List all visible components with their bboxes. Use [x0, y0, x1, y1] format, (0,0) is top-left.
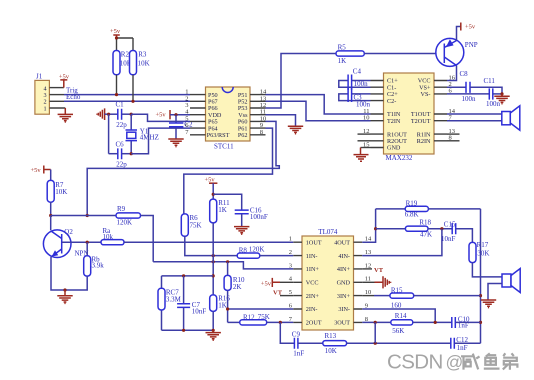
ground at Q2 emitter — [57, 290, 72, 303]
power +5v at VDD — [156, 110, 171, 119]
capacitor C16 — [235, 206, 268, 226]
transistor Q1 PNP — [436, 38, 478, 66]
capacitor C12 — [451, 336, 469, 352]
wire 4OUT to feedback net — [362, 209, 375, 242]
junction C7 top — [182, 274, 185, 277]
wire crystal top node to P65 pin5 — [131, 114, 190, 121]
junction C7 bottom — [182, 329, 185, 332]
wire R19 right to vertical net — [428, 208, 480, 210]
svg-text:100n: 100n — [462, 95, 477, 103]
svg-text:3IN+: 3IN+ — [337, 293, 351, 300]
svg-text:GND: GND — [337, 280, 351, 287]
wire R14 to C10 — [413, 321, 452, 323]
junction R11 net RC7 rail — [212, 274, 215, 277]
wire R12 to 2OUT pin7 — [267, 321, 294, 323]
capacitor C2 — [169, 115, 193, 139]
resistor R7 — [47, 180, 67, 202]
ground at C16 — [234, 227, 249, 235]
svg-text:C8: C8 — [460, 70, 469, 78]
junction crystal bottom node — [130, 152, 133, 155]
capacitor C10 — [452, 316, 470, 330]
svg-text:3IN-: 3IN- — [338, 306, 350, 313]
svg-text:10k: 10k — [103, 233, 114, 241]
wire R2IN open stub — [447, 140, 460, 142]
svg-text:4MHZ: 4MHZ — [140, 133, 159, 141]
transistor Q2 NPN — [43, 228, 88, 258]
junction R3 Echo — [131, 100, 134, 103]
resistor R8 — [237, 245, 264, 258]
svg-text:1: 1 — [289, 236, 292, 243]
wire VS- to C11 — [447, 93, 489, 95]
wire C6 to crystal bottom node — [122, 153, 132, 155]
junction R11 net on 1IN+ row — [212, 260, 215, 263]
svg-text:Echo: Echo — [66, 93, 81, 101]
TL074 left pin numbers — [289, 236, 293, 323]
wire P60 down to collector net line A — [87, 121, 279, 215]
wire C10 to vertical net — [455, 321, 480, 323]
wire C1 to crystal node — [122, 113, 132, 115]
svg-text:4IN-: 4IN- — [338, 253, 350, 260]
svg-text:1K: 1K — [218, 302, 227, 310]
resistor R14 — [391, 312, 413, 335]
wire T1OUT to speaker — [447, 113, 502, 115]
wire R8 to pin2 — [260, 255, 294, 257]
ground at speaker2 — [481, 300, 496, 308]
wire speaker2 to ground — [488, 284, 502, 300]
wire collector — [50, 216, 52, 231]
svg-text:R12: R12 — [243, 313, 255, 321]
wire VCC to PNP collector — [447, 66, 457, 81]
svg-text:C2-: C2- — [387, 98, 396, 105]
capacitor C11 — [484, 77, 501, 108]
resistor R13 — [323, 332, 347, 355]
MAX232 left pin numbers — [363, 108, 370, 149]
capacitor C9 — [292, 331, 305, 358]
wire R5 to PNP base — [364, 53, 444, 55]
wire Trig net — [64, 94, 190, 96]
junction 3OUT C12 branch — [374, 321, 377, 324]
wire R9 right down to 1IN+ row — [141, 216, 154, 262]
svg-text:R2IN: R2IN — [417, 138, 431, 145]
svg-text:2OUT: 2OUT — [306, 320, 322, 327]
svg-text:1K: 1K — [218, 206, 227, 214]
wire R19 left — [376, 208, 406, 210]
svg-text:R13: R13 — [325, 332, 337, 340]
svg-text:120K: 120K — [249, 245, 265, 253]
junction C12 row 3OUT net — [374, 342, 377, 345]
wire RC7 C7 top rail — [162, 275, 214, 277]
J1 pin 1 stub — [49, 107, 65, 109]
wire collector to R9 — [51, 215, 116, 217]
power +5v above R2 R3 — [110, 28, 121, 38]
junction left rail top — [107, 113, 110, 116]
wire PNP emitter to +5v — [457, 27, 461, 41]
svg-text:R2: R2 — [121, 50, 130, 58]
svg-text:Q2: Q2 — [64, 228, 73, 236]
MAX232 right pin numbers — [449, 74, 456, 141]
wire R12 left — [228, 321, 240, 323]
svg-text:R9: R9 — [117, 205, 126, 213]
svg-text:1IN-: 1IN- — [306, 253, 318, 260]
svg-text:8: 8 — [260, 129, 263, 136]
wire branch to C16 — [213, 194, 242, 210]
wire VDD row — [170, 114, 190, 116]
wire 3IN- pin9 — [362, 309, 435, 322]
junction R11 bottom on 1IN- row — [212, 254, 215, 257]
svg-text:1K: 1K — [338, 57, 347, 65]
wire Vss to ground — [266, 115, 296, 126]
capacitor C1 — [116, 101, 128, 130]
ground sideways at TL074 GND — [362, 276, 390, 288]
svg-text:2IN+: 2IN+ — [306, 293, 320, 300]
TL074 left pin stubs — [293, 242, 302, 322]
svg-text:56K: 56K — [392, 327, 404, 335]
svg-text:R8: R8 — [239, 246, 248, 254]
wire R10 top — [227, 262, 229, 276]
svg-text:3.3M: 3.3M — [166, 295, 182, 303]
svg-text:1OUT: 1OUT — [306, 239, 322, 246]
wire R10 bottom to 2IN- and R12 — [228, 290, 294, 322]
resistor R5 — [336, 43, 364, 64]
svg-text:10nF: 10nF — [192, 308, 207, 316]
svg-text:MAX232: MAX232 — [386, 154, 413, 162]
wire emitter to ground rail — [51, 257, 87, 290]
wire 3OUT branch down — [374, 322, 376, 343]
svg-text:C4: C4 — [353, 67, 362, 75]
svg-text:R3: R3 — [138, 50, 147, 58]
STC11 left pin numbers — [185, 89, 189, 136]
junction 4IN- on R18 C15 wire — [440, 227, 443, 230]
wire Ra to 1OUT row — [124, 241, 293, 243]
capacitor C6 — [116, 140, 128, 168]
ground below C2 — [168, 139, 183, 147]
svg-text:C15: C15 — [444, 221, 456, 229]
svg-text:+5v: +5v — [205, 176, 216, 183]
wire 3IN+ to R15 — [362, 295, 374, 297]
junction R2 Trig — [115, 93, 118, 96]
power +5v at J1 pin 4 — [59, 74, 70, 88]
svg-text:VCC: VCC — [306, 280, 319, 287]
wire R2 R3 top bar — [117, 38, 134, 51]
svg-text:1: 1 — [44, 105, 47, 112]
wire R1IN open stub — [447, 133, 460, 135]
resistor R11 — [210, 199, 230, 223]
wire crystal bottom node to P64 pin6 — [131, 128, 190, 154]
wire Q2 base row — [62, 241, 101, 243]
svg-text:4OUT: 4OUT — [334, 239, 350, 246]
svg-text:+5v: +5v — [31, 167, 42, 174]
wire R11 bottom vertical net — [212, 223, 214, 295]
wire ground to C1 — [105, 113, 118, 115]
wire +5v to R7 — [50, 170, 52, 181]
wire RC7 bottom rail — [162, 329, 214, 331]
svg-text:C6: C6 — [116, 140, 125, 148]
wire 3OUT row — [362, 321, 391, 323]
svg-text:22p: 22p — [116, 121, 127, 129]
op-amp U1 TL074 — [302, 228, 354, 330]
junction 4OUT R18 — [374, 227, 377, 230]
node VT at 2IN+ — [273, 290, 293, 297]
svg-text:22p: 22p — [116, 161, 127, 169]
resistor R12 — [240, 313, 270, 325]
wire R17 bottom to speaker — [472, 263, 502, 277]
power +5v at R11 — [205, 176, 218, 183]
wire R15 to vertical net — [414, 295, 481, 297]
op-amp U2 STC11 — [206, 87, 251, 151]
wire Rb top — [86, 242, 88, 256]
svg-text:+5v: +5v — [465, 24, 476, 31]
svg-text:100n: 100n — [486, 100, 501, 108]
resistor RC7 — [158, 276, 182, 330]
resistor R6 — [181, 214, 201, 236]
wire R3 bottom to Echo — [132, 75, 134, 102]
svg-text:T2OUT: T2OUT — [411, 118, 431, 125]
svg-text:1nF: 1nF — [457, 344, 468, 352]
ground at MAX232 GND pin — [354, 148, 371, 162]
junction 3IN- R14 C10 — [434, 321, 437, 324]
resistor R17 — [469, 241, 489, 262]
junction crystal top node — [130, 113, 133, 116]
resistor R2 — [113, 50, 132, 74]
resistor Rb — [84, 255, 105, 276]
resistor R19 — [405, 200, 429, 219]
svg-text:10nF: 10nF — [441, 235, 456, 243]
svg-text:R14: R14 — [395, 312, 407, 320]
svg-text:STC11: STC11 — [214, 143, 234, 151]
wire R6 bottom to 1IN- row — [185, 236, 237, 255]
resistor R3 — [130, 50, 150, 74]
svg-text:10K: 10K — [325, 347, 337, 355]
svg-text:10K: 10K — [55, 188, 67, 196]
wire P53 up to R5 — [266, 54, 337, 109]
speaker LS1 — [502, 106, 520, 130]
svg-text:3OUT: 3OUT — [334, 320, 350, 327]
svg-text:VT: VT — [374, 267, 384, 274]
resistor Ra — [101, 227, 124, 245]
wire R13 to C12 row — [347, 342, 451, 344]
wire R2OUT open stub — [358, 140, 371, 142]
svg-text:2K: 2K — [233, 283, 242, 291]
wire left rail to C6 — [109, 153, 118, 155]
svg-text:TL074: TL074 — [318, 228, 338, 236]
svg-text:R18: R18 — [419, 219, 431, 227]
svg-text:C1: C1 — [116, 101, 125, 109]
svg-text:47K: 47K — [420, 231, 432, 239]
wire C11 to ground node — [493, 93, 502, 95]
junction net C10 — [479, 321, 482, 324]
watermark CSDN — [387, 350, 463, 373]
svg-text:3: 3 — [289, 262, 292, 269]
svg-text:P62: P62 — [238, 132, 248, 139]
svg-text:2IN-: 2IN- — [306, 306, 318, 313]
svg-text:C11: C11 — [484, 77, 496, 85]
wire right vertical net R19 to C12 — [480, 209, 482, 343]
MAX232 right pin stubs — [434, 81, 447, 141]
junction R10 2IN- — [226, 307, 229, 310]
svg-text:J1: J1 — [36, 72, 43, 80]
wire C12 to vertical net — [454, 342, 480, 344]
junction at +5v R2 — [115, 36, 118, 39]
svg-text:PNP: PNP — [465, 41, 478, 49]
wire R18 left — [376, 228, 406, 230]
node VT at 4IN+ — [362, 267, 383, 274]
svg-text:120K: 120K — [117, 219, 133, 227]
svg-text:R17: R17 — [477, 241, 489, 249]
wire T2OUT to speaker — [447, 120, 502, 122]
crystal Y1 — [126, 114, 159, 154]
svg-text:75K: 75K — [190, 222, 202, 230]
svg-text:P63/RST: P63/RST — [207, 132, 230, 139]
ground sideways at C1 — [97, 108, 105, 120]
junction C16 branch — [212, 193, 215, 196]
capacitor C3 — [339, 88, 371, 108]
svg-text:10K: 10K — [138, 59, 150, 67]
wire R7 bottom to collector node — [50, 202, 52, 215]
power +5v at R7 — [31, 166, 51, 174]
TL074 right pin numbers — [365, 236, 372, 323]
J1 pin 4 stub — [49, 87, 63, 89]
wire 1IN+ row — [153, 262, 293, 269]
svg-text:30K: 30K — [477, 249, 489, 257]
junction R7 collector R9 — [49, 214, 52, 217]
junction 2OUT feedback — [279, 321, 282, 324]
svg-text:@: @ — [446, 352, 464, 372]
resistor R9 — [116, 205, 141, 226]
wire C15 to R17 — [456, 229, 473, 243]
svg-text:1nF: 1nF — [293, 349, 304, 357]
wire C8 to ground node — [470, 87, 502, 94]
junction VDD C2 — [174, 113, 177, 116]
resistor R15 — [390, 286, 414, 309]
ground at C11 — [494, 94, 509, 104]
STC11 left pin stubs 1-7 — [190, 95, 206, 135]
ground at Vss — [288, 126, 303, 134]
wire left rail down to C6 — [108, 114, 110, 154]
svg-text:R5: R5 — [338, 43, 347, 51]
svg-text:VS-: VS- — [421, 91, 431, 98]
ground at R16 rail — [206, 330, 221, 340]
watermark chinese glyphs — [461, 353, 517, 370]
wire C9 to R13 — [298, 342, 323, 344]
svg-text:4IN+: 4IN+ — [337, 266, 351, 273]
wire 2OUT down to C9 — [280, 322, 294, 343]
capacitor C7 — [177, 276, 206, 330]
STC11 right pin stubs 14-8 — [250, 95, 266, 135]
svg-text:R19: R19 — [406, 200, 418, 208]
junction emitter rail — [63, 288, 66, 291]
svg-text:+5v: +5v — [156, 112, 167, 119]
capacitor C4 — [339, 67, 371, 90]
svg-text:C9: C9 — [292, 331, 301, 339]
wire R1OUT open stub — [358, 133, 371, 135]
svg-text:GND: GND — [387, 145, 401, 152]
junction net R15 — [479, 294, 482, 297]
ground at J1 pin 1 — [58, 108, 73, 122]
op-amp U3 MAX232 — [384, 73, 435, 162]
svg-text:100n: 100n — [356, 100, 371, 108]
svg-text:CSDN: CSDN — [387, 350, 443, 373]
svg-text:3.9k: 3.9k — [92, 262, 105, 270]
svg-text:1IN+: 1IN+ — [306, 266, 320, 273]
power +5v at PNP — [461, 23, 476, 31]
junction C8 C11 ground — [500, 92, 503, 95]
junction base Rb — [86, 241, 89, 244]
speaker LS2 — [502, 269, 520, 293]
wire P61 down to R6 top — [184, 128, 273, 214]
svg-text:75K: 75K — [258, 313, 270, 321]
wire +5v to R11 — [212, 183, 214, 199]
wire R2 bottom to Trig — [116, 75, 118, 95]
MAX232 left pin stubs — [371, 81, 384, 148]
svg-text:2: 2 — [289, 249, 292, 256]
capacitor C8 — [460, 70, 477, 103]
svg-text:+5v: +5v — [110, 28, 121, 35]
resistor R18 — [405, 219, 432, 239]
wire P51 to T1IN — [266, 95, 371, 114]
svg-text:6.8K: 6.8K — [405, 210, 419, 218]
J1 pin 2 stub — [49, 100, 64, 102]
svg-text:10: 10 — [363, 115, 370, 122]
wire VS+ to C8 — [447, 86, 466, 88]
svg-text:T2IN: T2IN — [387, 118, 401, 125]
wire R16 bottom to ground rail — [212, 311, 214, 330]
J1 pin 3 stub — [49, 94, 64, 96]
wire 4IN- pin13 up — [362, 229, 442, 256]
svg-text:R15: R15 — [391, 286, 403, 294]
junction R10 top — [226, 260, 229, 263]
STC11 right pin numbers — [260, 89, 267, 136]
svg-text:100nF: 100nF — [250, 213, 268, 221]
resistor R10 — [224, 275, 245, 290]
svg-text:100n: 100n — [354, 80, 369, 88]
svg-text:+5v: +5v — [261, 281, 272, 288]
wire R18 to C15 — [428, 228, 452, 230]
TL074 right pin stubs — [354, 242, 363, 322]
capacitor C15 — [441, 221, 456, 244]
wire Echo net — [64, 100, 190, 102]
power +5v at TL074 VCC — [261, 278, 294, 288]
resistor R16 — [210, 295, 231, 312]
connector J1 — [35, 72, 50, 114]
junction line A collector node — [86, 214, 89, 217]
wire P52 to T2IN — [266, 101, 371, 120]
junction R16 rail — [212, 329, 215, 332]
